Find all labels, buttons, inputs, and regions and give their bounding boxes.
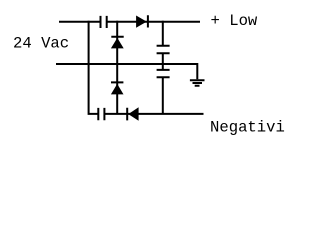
svg-text:Negativi: Negativi — [210, 119, 285, 137]
svg-text:24 Vac: 24 Vac — [13, 35, 69, 53]
svg-text:+ Low: + Low — [211, 12, 258, 30]
